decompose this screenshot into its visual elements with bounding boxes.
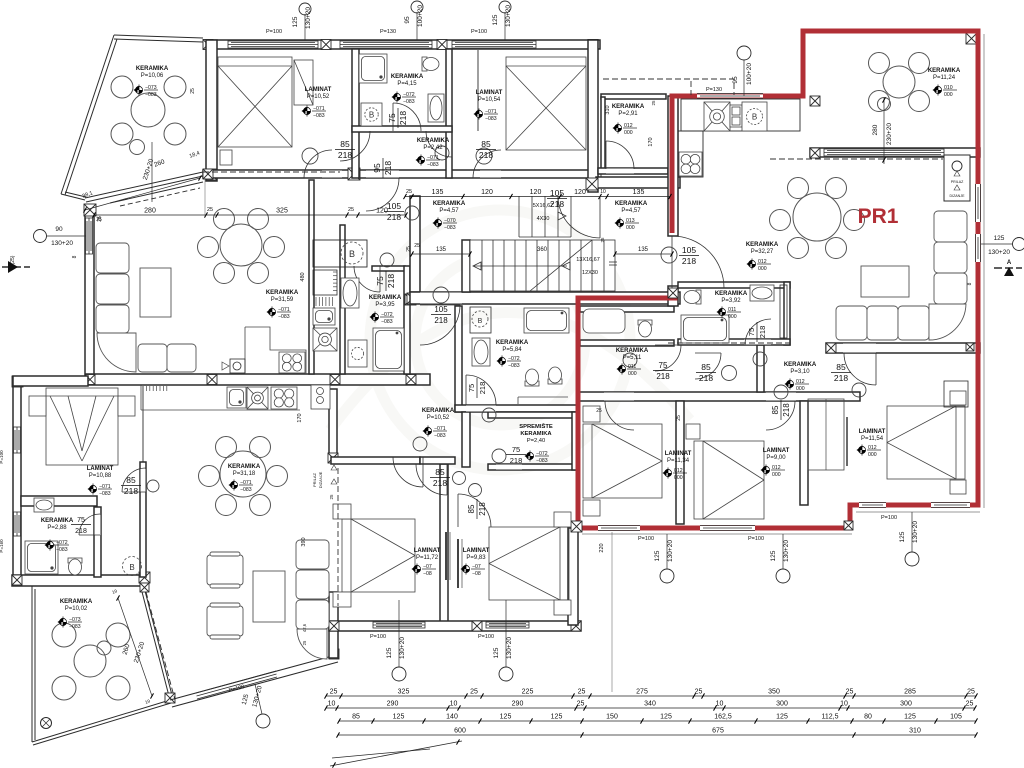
window [452, 41, 536, 48]
wall pier [586, 178, 598, 190]
svg-text:PR1: PR1 [858, 205, 899, 228]
svg-text:135: 135 [638, 247, 649, 253]
door 85/218 bedroom1 [304, 150, 332, 178]
closet bedroom 11,54 [944, 381, 968, 407]
wall [826, 343, 980, 353]
svg-text:P=2,88: P=2,88 [47, 525, 67, 531]
svg-text:P=31,18: P=31,18 [233, 471, 256, 477]
svg-text:P=130: P=130 [380, 29, 396, 35]
svg-text:120: 120 [481, 189, 493, 196]
wall [352, 126, 452, 132]
wall [12, 575, 148, 586]
svg-text:95: 95 [404, 16, 411, 24]
bottom callout x912 [911, 512, 913, 552]
dimension row [405, 196, 670, 198]
WC fixtures [583, 309, 625, 333]
door size label rotated [771, 400, 791, 420]
svg-text:000: 000 [868, 452, 877, 458]
bed [218, 57, 292, 147]
wall [578, 392, 860, 401]
level marker [134, 85, 159, 99]
boiler lower-left [123, 557, 142, 576]
dashed slant bottom terrace [146, 592, 175, 700]
svg-text:75: 75 [387, 113, 397, 123]
door 75/218 bathroom 4,15 [393, 103, 421, 131]
svg-text:KERAMIKA: KERAMIKA [928, 68, 961, 74]
svg-text:125: 125 [654, 550, 661, 561]
cooktop 4 burners [679, 152, 702, 176]
rug lower living [253, 571, 285, 622]
wall [596, 177, 680, 188]
svg-text:P=10,52: P=10,52 [307, 94, 330, 100]
roof overhang dashed vestibule [203, 79, 943, 606]
shower [25, 541, 58, 574]
svg-text:KERAMIKA: KERAMIKA [266, 290, 299, 296]
slanted dimension lines bottom left [330, 741, 462, 766]
terrace bottom-left callout [255, 684, 262, 714]
window [14, 427, 21, 453]
svg-text:95: 95 [372, 163, 382, 173]
wall [676, 401, 684, 524]
svg-text:B: B [478, 318, 483, 325]
svg-text:218: 218 [682, 256, 696, 266]
svg-text:P=3,95: P=3,95 [375, 302, 395, 308]
svg-text:PRILAZ: PRILAZ [312, 472, 317, 487]
svg-text:325: 325 [276, 208, 288, 215]
svg-text:120: 120 [574, 189, 586, 196]
svg-text:SPREMIŠTE: SPREMIŠTE [519, 422, 553, 430]
svg-text:25: 25 [651, 100, 656, 106]
door 75/218 bath 3,95 [354, 266, 380, 292]
svg-text:B: B [349, 249, 355, 259]
wall pier [826, 343, 836, 353]
door 105/218 lower hall [420, 305, 460, 345]
bathtub [681, 315, 729, 343]
wall [13, 376, 88, 386]
svg-text:218: 218 [387, 212, 401, 222]
toilet [68, 558, 82, 575]
svg-text:25: 25 [596, 408, 602, 414]
svg-text:P=10,88: P=10,88 [89, 473, 112, 479]
svg-text:75: 75 [375, 276, 385, 286]
svg-text:KERAMIKA: KERAMIKA [433, 201, 466, 207]
svg-text:25: 25 [695, 689, 703, 696]
svg-text:P=4,57: P=4,57 [439, 208, 459, 214]
svg-text:95: 95 [732, 76, 739, 84]
svg-text:P=130: P=130 [706, 87, 722, 93]
window in slanted wall [196, 671, 277, 699]
nightstand [333, 504, 351, 519]
svg-text:130+20: 130+20 [912, 521, 919, 543]
svg-text:LAMINAT: LAMINAT [476, 90, 503, 96]
svg-text:000: 000 [626, 225, 635, 231]
level marker [525, 451, 550, 465]
door size label rotated [467, 499, 487, 519]
svg-text:P=5,84: P=5,84 [502, 347, 522, 353]
door 85/218 bedroom2 [473, 150, 501, 178]
level marker [613, 123, 638, 137]
wall [340, 225, 345, 374]
svg-text:−083: −083 [99, 491, 111, 497]
wall pier [472, 621, 482, 631]
svg-text:290: 290 [512, 701, 524, 708]
wall [410, 292, 680, 304]
window in red east wall upper [976, 184, 981, 222]
wash basin [34, 498, 54, 512]
svg-text:B: B [369, 111, 374, 120]
nightstand [583, 500, 600, 516]
svg-text:218: 218 [478, 502, 487, 516]
svg-text:105: 105 [434, 305, 448, 314]
wall pier [140, 583, 149, 592]
level marker [88, 484, 113, 498]
svg-text:000: 000 [728, 314, 737, 320]
wall pier [139, 572, 150, 583]
svg-text:−08: −08 [472, 571, 481, 577]
svg-text:−08: −08 [423, 571, 432, 577]
level marker [474, 109, 499, 123]
wardrobe between bedrooms [808, 399, 844, 470]
svg-text:120: 120 [530, 189, 542, 196]
sink unit with X [313, 328, 337, 351]
cooktop 4 burners [271, 387, 297, 409]
door knob circle [380, 253, 394, 267]
svg-text:135: 135 [432, 189, 444, 196]
svg-text:275: 275 [636, 689, 648, 696]
svg-text:25: 25 [846, 689, 854, 696]
svg-text:KERAMIKA: KERAMIKA [391, 74, 424, 80]
svg-text:KERAMIKA: KERAMIKA [715, 291, 748, 297]
wall pier [407, 293, 418, 304]
wall pier [329, 621, 339, 631]
svg-text:218: 218 [124, 486, 138, 496]
level marker [617, 364, 642, 378]
door 75/218 bath 5,84 [466, 375, 496, 405]
svg-text:100+20: 100+20 [746, 63, 753, 85]
wall [420, 457, 455, 464]
wall pier [348, 168, 360, 180]
svg-text:LAMINAT: LAMINAT [463, 548, 490, 554]
window in red east wall [976, 234, 981, 262]
kitchen sink [313, 308, 335, 325]
svg-text:P=5,11: P=5,11 [623, 355, 642, 361]
PR1 sofa [836, 306, 867, 340]
svg-text:85: 85 [836, 362, 846, 372]
door knob circle [852, 383, 866, 397]
wall pier [591, 169, 601, 179]
level marker [497, 356, 522, 370]
svg-text:130+20: 130+20 [305, 7, 312, 29]
wall pier [207, 375, 217, 385]
svg-text:125: 125 [493, 647, 500, 658]
svg-text:−083: −083 [56, 547, 68, 553]
wall pier [321, 40, 331, 50]
bed [583, 424, 662, 498]
svg-text:218: 218 [434, 316, 448, 325]
nightstand [554, 600, 571, 615]
svg-text:125: 125 [770, 550, 777, 561]
wall [446, 49, 452, 178]
svg-text:4X30: 4X30 [537, 216, 550, 222]
svg-text:P=10,52: P=10,52 [427, 415, 450, 421]
bottom-left terrace outline [32, 586, 173, 745]
svg-text:135: 135 [436, 247, 447, 253]
door size label rotated [747, 322, 767, 342]
wall [455, 306, 462, 412]
wall pier [405, 294, 416, 305]
level marker [461, 564, 486, 578]
svg-text:DIZANJE: DIZANJE [318, 471, 323, 488]
wardrobe bedroom1 [294, 60, 313, 105]
svg-text:125: 125 [994, 235, 1005, 242]
door 75/218 bath 2,88 [79, 514, 100, 535]
wall [668, 96, 678, 236]
wall pier [571, 621, 581, 631]
door 105/218 PR1 entry [672, 236, 724, 288]
window callout x417 [416, 12, 418, 40]
svg-text:75: 75 [659, 361, 668, 370]
svg-text:P=11,54: P=11,54 [861, 436, 884, 442]
wall pier [206, 169, 217, 180]
nightstand [583, 406, 600, 422]
round table with chairs [198, 209, 285, 284]
svg-text:−083: −083 [69, 624, 81, 630]
svg-text:KERAMIKA: KERAMIKA [422, 408, 455, 414]
svg-text:130+20: 130+20 [51, 240, 73, 247]
armchair [207, 603, 243, 639]
wall pier [437, 40, 447, 50]
svg-text:310: 310 [909, 728, 921, 735]
secondary dim y253 [412, 253, 470, 255]
level marker [302, 106, 327, 120]
sink unit with X [247, 387, 268, 409]
wall pier [330, 375, 340, 385]
level marker [933, 85, 958, 99]
bed [694, 441, 764, 519]
door size label rotated [467, 378, 487, 398]
wall pier [203, 169, 213, 179]
svg-text:000: 000 [674, 475, 683, 481]
svg-text:−083: −083 [508, 363, 520, 369]
wall [86, 374, 430, 385]
svg-text:000: 000 [624, 130, 633, 136]
windows in red south wall [598, 526, 640, 531]
bathtub [373, 328, 404, 371]
svg-text:218: 218 [338, 150, 352, 160]
wall [784, 282, 790, 345]
svg-text:218: 218 [479, 150, 493, 160]
window callout x744 [737, 46, 751, 60]
level marker [267, 307, 292, 321]
svg-text:218: 218 [386, 274, 396, 288]
door knob circle [469, 484, 482, 497]
svg-text:LAMINAT: LAMINAT [763, 448, 790, 454]
svg-text:−083: −083 [381, 319, 393, 325]
terrace dim 260/230+20 [118, 598, 152, 696]
svg-text:12X30: 12X30 [582, 270, 598, 276]
wall [810, 148, 980, 157]
svg-text:13X16,67: 13X16,67 [576, 257, 600, 263]
door knob circle [453, 472, 466, 485]
door knob circle [405, 206, 419, 220]
door knob circle [661, 247, 677, 263]
svg-text:25: 25 [414, 243, 420, 249]
svg-text:P=2,42: P=2,42 [423, 145, 443, 151]
dimension row [339, 720, 976, 722]
svg-text:340: 340 [644, 701, 656, 708]
svg-text:25: 25 [470, 689, 478, 696]
wall pier [810, 148, 820, 158]
toilet [548, 367, 562, 384]
wall pier [84, 204, 96, 216]
cabinet [780, 285, 787, 338]
door bedroom 11,34 [605, 401, 634, 430]
svg-text:125: 125 [899, 531, 906, 542]
dimension row [338, 734, 976, 736]
svg-text:LAMINAT: LAMINAT [414, 548, 441, 554]
window [340, 41, 432, 48]
level marker [761, 465, 786, 479]
svg-text:105: 105 [950, 714, 962, 721]
door vestibule [606, 141, 634, 169]
shower [359, 54, 387, 83]
upper kitchen lower counters [245, 327, 306, 374]
level marker [392, 92, 417, 106]
cooktop 4 burners [279, 352, 305, 373]
svg-text:170: 170 [297, 413, 303, 422]
door knob circle [722, 366, 737, 381]
svg-text:−083: −083 [434, 433, 446, 439]
svg-text:75: 75 [512, 445, 520, 454]
door size label rotated [375, 271, 396, 291]
svg-text:LAMINAT: LAMINAT [87, 466, 114, 472]
svg-text:290: 290 [387, 701, 399, 708]
svg-text:85: 85 [771, 405, 780, 414]
svg-text:B: B [752, 113, 757, 122]
wall [94, 507, 101, 577]
wall [601, 97, 605, 172]
washing machine [348, 340, 367, 367]
level marker [370, 312, 395, 326]
right callout 125/130+20 [1013, 238, 1024, 251]
svg-text:P=100: P=100 [478, 634, 494, 640]
wall pier [165, 693, 175, 703]
svg-text:P=10,54: P=10,54 [478, 97, 501, 103]
wall [206, 40, 217, 181]
armchair [207, 552, 243, 588]
svg-text:125: 125 [386, 647, 393, 658]
svg-text:360: 360 [537, 247, 548, 253]
wall [462, 240, 470, 292]
bathtub [524, 308, 569, 333]
svg-text:85: 85 [435, 467, 445, 477]
wall [329, 389, 337, 455]
kitchen sink lower [227, 387, 246, 408]
level marker [423, 426, 448, 440]
svg-text:P=100: P=100 [881, 515, 897, 521]
wall pier [966, 343, 974, 351]
svg-text:25: 25 [966, 701, 974, 708]
svg-text:80: 80 [864, 714, 872, 721]
svg-text:000: 000 [796, 386, 805, 392]
red window P=130 in north wall [697, 94, 763, 99]
wall [21, 496, 97, 506]
terrace dim 280 [883, 98, 885, 164]
svg-text:85: 85 [340, 139, 350, 149]
toilet [684, 290, 701, 304]
level marker [615, 218, 640, 232]
svg-text:600: 600 [454, 728, 466, 735]
wall pier [329, 649, 339, 659]
door knob circle [492, 449, 506, 463]
svg-text:218: 218 [782, 403, 791, 417]
svg-text:P=3,10: P=3,10 [790, 369, 810, 375]
svg-text:A: A [1007, 260, 1012, 266]
svg-text:75: 75 [467, 384, 476, 392]
wall [678, 339, 790, 345]
svg-text:130+20: 130+20 [399, 637, 406, 659]
svg-text:10: 10 [450, 701, 458, 708]
wall pier [12, 376, 23, 387]
svg-text:75: 75 [747, 328, 756, 336]
extension line x612 [611, 532, 613, 692]
wall [331, 457, 420, 464]
svg-text:130+20: 130+20 [506, 637, 513, 659]
door knob circle [435, 146, 449, 160]
svg-text:KERAMIKA: KERAMIKA [60, 599, 93, 605]
wall [204, 40, 600, 49]
svg-text:25: 25 [302, 640, 307, 645]
nightstand [118, 396, 135, 416]
door 105/218 stairs top [558, 196, 600, 238]
wall [462, 412, 470, 467]
gray shadow of red outline [582, 34, 984, 534]
svg-text:125: 125 [551, 714, 563, 721]
svg-text:P=100: P=100 [266, 29, 282, 35]
door knob circle [433, 287, 449, 303]
wall [588, 40, 598, 192]
svg-text:218: 218 [383, 161, 393, 175]
svg-text:KERAMIKA: KERAMIKA [612, 104, 645, 110]
svg-text:90: 90 [55, 226, 63, 233]
nightstand [950, 480, 966, 494]
level marker [229, 480, 254, 494]
washing machine [361, 103, 382, 126]
svg-text:P=100: P=100 [471, 29, 487, 35]
svg-text:10: 10 [328, 701, 336, 708]
boiler lower apartment [470, 307, 491, 333]
level marker [416, 155, 441, 169]
svg-text:KERAMIKA: KERAMIKA [136, 66, 169, 72]
svg-text:100+20: 100+20 [417, 5, 424, 27]
svg-text:000: 000 [772, 472, 781, 478]
wall [580, 340, 674, 346]
bed [506, 57, 586, 150]
wall [309, 180, 314, 374]
svg-text:P=100: P=100 [638, 536, 654, 542]
svg-text:000: 000 [628, 371, 637, 377]
window [824, 149, 944, 156]
svg-text:P=10,02: P=10,02 [65, 606, 88, 612]
nightstand [554, 512, 571, 527]
svg-text:P=32,27: P=32,27 [751, 249, 774, 255]
svg-text:P=160: P=160 [0, 539, 4, 553]
window [373, 622, 425, 628]
window callout x505 [504, 12, 506, 40]
svg-text:10: 10 [840, 701, 848, 708]
nightstand bed1 [220, 150, 232, 165]
level marker [747, 259, 772, 273]
